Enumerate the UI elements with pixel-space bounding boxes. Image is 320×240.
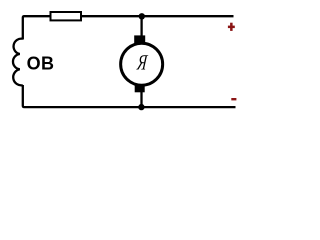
terminal - (negative supply) — [231, 98, 236, 100]
terminal + (positive supply) — [228, 23, 235, 31]
motor armature brush (bottom) — [135, 85, 145, 92]
wire: top rail right segment — [82, 15, 234, 17]
motor armature brush (top) — [134, 35, 145, 43]
svg-text:Я: Я — [135, 51, 149, 76]
wire: branch from top rail to armature — [140, 16, 142, 36]
motor armature U (circle), label Я — [121, 43, 163, 85]
wire: top rail left segment with corner to field winding — [23, 16, 50, 39]
node: bottom junction dot — [138, 104, 144, 110]
svg-text:ОВ: ОВ — [27, 54, 55, 74]
wire: left vertical bottom + bottom rail — [23, 85, 236, 107]
node: top junction dot — [139, 13, 145, 19]
wire: branch from armature to bottom rail — [140, 92, 142, 107]
inductor OB (field winding) coil humps — [13, 39, 23, 86]
resistor (regulating rheostat, no designator) — [51, 12, 82, 20]
